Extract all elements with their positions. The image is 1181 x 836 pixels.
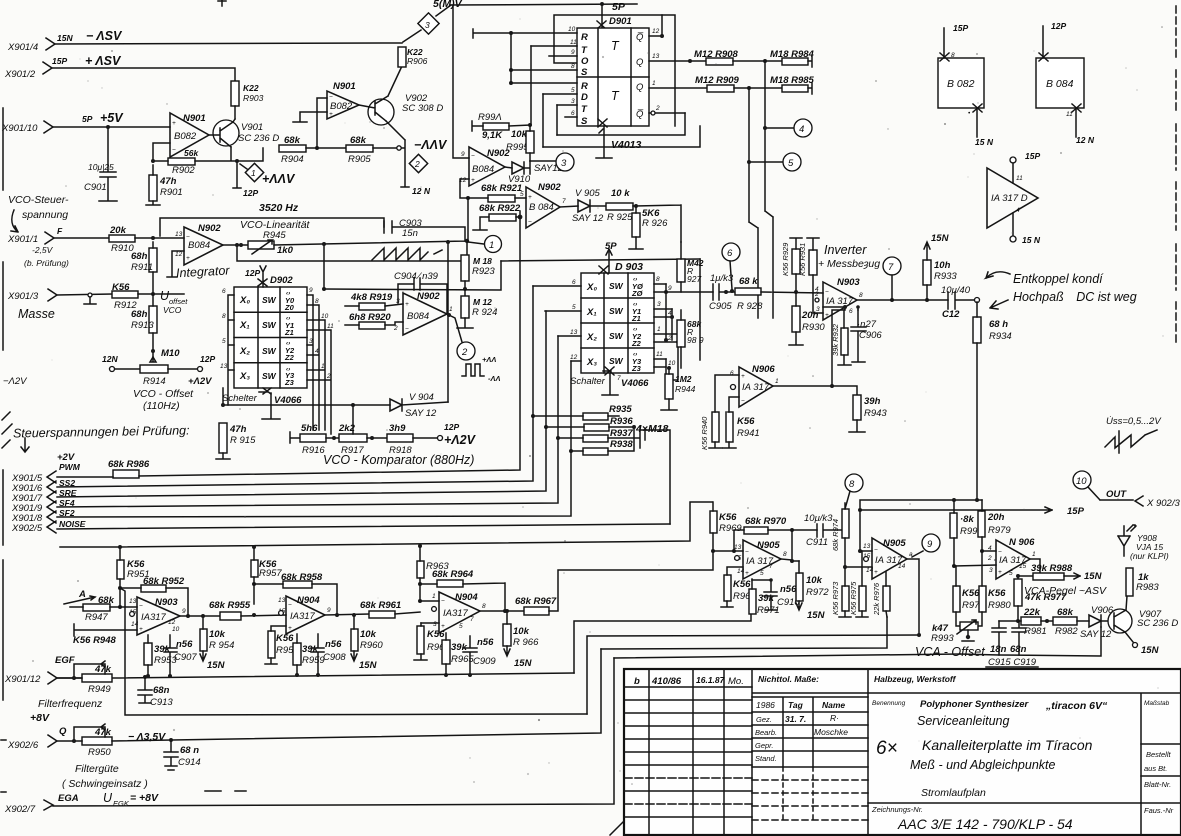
svg-text:C909: C909 [473,656,496,667]
svg-text:Benennung: Benennung [872,700,906,707]
resistor R969 [710,502,742,553]
svg-text:13: 13 [652,53,660,60]
svg-text:R972: R972 [806,587,829,598]
resistor R911 [131,242,157,294]
svg-text:5: 5 [1009,570,1013,577]
svg-text:3: 3 [657,301,661,308]
svg-text:10k: 10k [360,629,377,640]
svg-text:2: 2 [326,373,331,380]
svg-text:−: − [329,94,333,101]
svg-text:15P: 15P [1067,506,1085,517]
svg-text:20h: 20h [801,310,819,321]
svg-text:R969: R969 [719,523,742,534]
junction R910/R911 [151,236,155,240]
svg-text:15N: 15N [359,660,378,671]
junction 5P [597,2,606,29]
svg-text:68k R974: 68k R974 [831,519,840,551]
svg-text:X901/3: X901/3 [7,291,39,302]
svg-text:1: 1 [1032,551,1036,558]
resistor R931 [798,238,819,293]
svg-text:R959: R959 [302,655,325,666]
ground D901 [596,126,612,158]
svg-text:K56: K56 [719,512,737,523]
svg-text:Z3: Z3 [284,378,295,387]
svg-text:AAC 3/E 142 - 790/KLP - 54: AAC 3/E 142 - 790/KLP - 54 [897,816,1073,832]
svg-text:+Λ2V: +Λ2V [188,376,212,387]
label Filterfrequenz +8V [30,698,103,724]
resistor R938 [569,425,636,455]
wire Q1 branch down [747,86,783,318]
svg-text:39k: 39k [154,644,171,655]
svg-text:1: 1 [251,168,256,178]
resistor R934 [973,302,1012,500]
svg-text:12P: 12P [245,268,260,278]
junction sawtooth wire [235,243,239,247]
rail filter common [57,673,574,678]
svg-text:+: + [741,373,745,380]
resistor R926 [629,206,668,249]
svg-text:R904: R904 [281,154,304,165]
svg-text:V 905: V 905 [575,188,601,199]
svg-text:SW: SW [262,295,277,305]
svg-text:1: 1 [489,240,494,251]
ground D902 [262,393,280,419]
svg-text:47k: 47k [94,664,112,675]
svg-text:R906: R906 [407,56,428,66]
svg-text:R913: R913 [131,320,154,331]
resistor R981 [999,607,1053,637]
svg-text:9: 9 [327,607,331,614]
resistor R985 [770,75,815,94]
svg-text:IA 317: IA 317 [742,382,770,393]
bus wire PWM [57,217,520,477]
svg-text:N904: N904 [455,592,478,603]
svg-text:Filtergüte: Filtergüte [75,763,119,775]
wire X902/6 row [112,649,601,741]
svg-text:N902: N902 [417,291,440,302]
svg-text:+Λ2V: +Λ2V [444,433,477,447]
svg-text:R960: R960 [360,640,383,651]
label VCO-Linearitaet [240,219,311,241]
svg-text:12: 12 [570,354,578,361]
svg-text:8: 8 [783,551,787,558]
op-amp N902 d [393,291,453,335]
svg-text:VCO - Offset: VCO - Offset [133,388,194,400]
rail R951 R957 R963 tops [60,502,712,547]
label +2V PWM [57,452,81,472]
svg-text:68 n: 68 n [180,745,199,756]
svg-text:R903: R903 [243,93,264,103]
svg-text:8: 8 [482,603,486,610]
svg-text:2: 2 [414,159,420,169]
node circle 6 [722,243,740,293]
svg-text:5: 5 [572,304,576,311]
svg-text:10k: 10k [209,629,226,640]
right sheet border dashes [1175,6,1177,345]
junction X rail [221,403,225,407]
resistor R973 [831,565,851,617]
svg-text:1: 1 [657,326,661,333]
svg-text:1: 1 [321,363,325,370]
svg-text:13: 13 [278,597,286,604]
svg-text:Schalter: Schalter [570,376,606,387]
svg-text:8: 8 [859,292,863,299]
svg-text:C12: C12 [942,309,960,320]
node circle 2 [457,342,475,360]
op-amp N904 filter2 [278,595,331,634]
svg-text:R911: R911 [131,262,153,273]
svg-text:3: 3 [571,98,575,105]
wire stage2 output [325,614,369,615]
switch IC D902 [234,266,307,388]
D901 Q2 stub [649,105,685,115]
bus wire SF2 [57,361,571,517]
svg-text:R923: R923 [472,266,495,277]
svg-text:SC 308 D: SC 308 D [402,103,443,114]
svg-text:11: 11 [327,323,334,330]
photodiode Y908 [1118,525,1169,561]
svg-text:C905: C905 [709,301,732,312]
net 3520Hz feedback wire [160,218,384,236]
capacitor C905 [709,273,735,312]
svg-text:Name: Name [822,700,845,710]
resistor R933 [923,233,957,300]
svg-text:12P: 12P [200,354,215,364]
svg-text:N906: N906 [752,364,775,375]
svg-text:12P: 12P [1051,21,1066,31]
op-amp N905 b [863,538,913,579]
handwritten Entkoppelkondi [986,272,1137,309]
D901 pin stubs left [473,26,577,147]
svg-text:IA 317 D: IA 317 D [991,193,1028,204]
resistor R935 [531,404,632,420]
svg-text:OUT: OUT [1106,489,1127,500]
svg-text:1986: 1986 [756,700,775,710]
svg-text:7: 7 [470,616,474,623]
svg-text:·n27: ·n27 [857,319,877,330]
svg-text:2: 2 [461,347,468,358]
D903 right pin stubs [654,276,678,367]
svg-text:3: 3 [425,20,430,30]
resistor R976 [872,572,890,617]
svg-text:VCO: VCO [163,305,182,315]
svg-text:D: D [581,92,588,103]
bus wire SS2 [57,286,533,487]
node circle 10 and OUT [1073,471,1180,509]
svg-text:15P: 15P [953,23,968,33]
resistor R915 [216,423,256,459]
svg-text:-ΛΛ: -ΛΛ [488,374,501,383]
svg-text:R945: R945 [263,230,286,241]
capacitor C913 [138,675,173,708]
node circle 1 [468,236,502,253]
ground N901b + input [293,112,327,122]
resistor R953 [144,635,177,678]
svg-text:B 082: B 082 [947,78,975,90]
svg-text:C911: C911 [806,537,828,548]
svg-text:Q: Q [59,726,67,737]
svg-text:D902: D902 [270,275,293,286]
svg-text:47h: 47h [159,176,177,187]
label SAY12 node3 [530,161,566,174]
svg-text:6: 6 [222,288,226,295]
svg-text:3: 3 [989,567,993,574]
svg-text:Moschke: Moschke [814,727,848,737]
transistor V902 [359,66,443,125]
svg-text:K56 R940: K56 R940 [700,416,709,450]
svg-text:aus Bt.: aus Bt. [1144,764,1167,773]
wire 5P top rail [451,4,637,5]
svg-text:13: 13 [863,543,871,550]
svg-text:9: 9 [309,287,313,294]
op-amp N901 [170,113,209,157]
wire V901 emitter node [195,147,263,187]
svg-text:−: − [874,547,878,554]
svg-text:6: 6 [730,370,734,377]
resistor R949 [57,661,112,695]
svg-text:12P: 12P [444,422,459,432]
capacitor C12 [941,285,980,320]
svg-text:1M2: 1M2 [675,374,692,384]
svg-text:+ΛΛV: +ΛΛV [262,172,296,186]
svg-text:X 902/3: X 902/3 [1146,498,1180,509]
svg-text:−Λ2V: −Λ2V [3,376,28,387]
svg-text:+: + [139,626,143,633]
svg-text:SW: SW [262,371,277,381]
svg-text:Hochpaß DC ist weg: Hochpaß DC ist weg [1013,290,1137,304]
svg-text:C914: C914 [178,757,201,768]
svg-text:NOISE: NOISE [59,519,86,529]
svg-text:= +8V: = +8V [130,792,159,804]
label R993 VCA-Offset [915,623,985,659]
svg-text:15N: 15N [1084,571,1103,582]
resistor R966 [503,611,539,669]
svg-text:8: 8 [656,276,660,283]
svg-text:12: 12 [175,251,183,258]
wire N905a output [781,530,799,563]
svg-text:R957: R957 [259,568,282,579]
svg-text:68n: 68n [153,685,170,696]
title mini table [752,697,868,820]
op-amp IA317D power symbol [987,151,1041,245]
svg-text:S: S [581,67,588,78]
svg-text:4: 4 [315,348,319,355]
resistor R959 [293,634,325,677]
svg-text:(nur KLPI): (nur KLPI) [1130,551,1169,561]
D901 Q13 output wire [649,53,706,63]
svg-text:X₀: X₀ [239,295,250,306]
svg-text:−: − [172,147,176,154]
potentiometer R993 [957,620,978,641]
svg-text:Z2: Z2 [631,339,642,348]
wire return path C [601,617,887,649]
wire R936/38 common to NOISE riser [640,430,670,524]
resistor R909 [695,75,782,92]
svg-text:1: 1 [449,306,453,313]
IC block B084 [1036,21,1095,145]
resistor R928 [735,276,823,312]
svg-text:14: 14 [866,567,874,574]
label Uss waveform [1105,416,1162,453]
svg-text:+: + [471,177,475,184]
svg-text:U: U [103,791,113,805]
wire return path A [574,614,751,673]
svg-text:5: 5 [222,338,226,345]
5P supply D903 [599,241,617,274]
svg-text:+: + [186,255,190,262]
svg-text:4: 4 [1016,207,1020,214]
node circle 3 [556,153,574,171]
wire N903 output [857,299,948,301]
svg-text:SC 236 D: SC 236 D [1137,618,1178,629]
svg-text:+: + [745,570,749,577]
svg-text:1: 1 [652,80,656,87]
wire feedback loop x125 [120,588,587,715]
svg-text:(110Hz): (110Hz) [143,400,180,412]
svg-text:Filterfrequenz: Filterfrequenz [38,698,103,710]
svg-text:IA 317: IA 317 [826,296,854,307]
svg-text:n56: n56 [176,639,193,650]
svg-text:R979: R979 [988,525,1011,536]
connector X901/5 [11,471,56,484]
svg-text:V 904: V 904 [409,392,434,403]
svg-text:31. 7.: 31. 7. [785,714,806,724]
svg-text:12: 12 [168,619,176,626]
svg-text:N903: N903 [155,597,178,608]
svg-text:B084: B084 [407,311,429,322]
svg-text:18n: 18n [990,644,1007,655]
wire N903 plus feedback [813,293,858,386]
svg-text:11: 11 [1016,175,1023,182]
capacitor C910 [752,578,800,610]
svg-text:+: + [825,312,829,319]
diode V905 [560,188,606,224]
wire N906a output [773,386,857,395]
wire D903 out to N903 [666,291,713,293]
svg-text:R99Λ: R99Λ [478,112,502,123]
svg-text:1: 1 [432,593,436,600]
svg-text:10μ|25: 10μ|25 [88,162,114,172]
resistor R986 [108,459,150,478]
svg-text:68k R967: 68k R967 [515,596,557,607]
svg-text:SW: SW [262,346,277,356]
svg-text:Bestellt: Bestellt [1146,750,1172,759]
svg-text:+: + [874,569,878,576]
svg-text:8: 8 [571,63,575,70]
svg-text:R 928: R 928 [737,301,763,312]
svg-text:Maßstab: Maßstab [1144,700,1170,707]
svg-text:2: 2 [814,291,819,298]
svg-text:U̇ss=0,5...2V: U̇ss=0,5...2V [1106,416,1162,427]
svg-text:C913: C913 [150,697,173,708]
wire R934 to N905b [858,498,982,553]
connector X901/2 [4,56,67,80]
svg-text:−: − [825,289,829,296]
svg-text:14: 14 [737,568,745,575]
svg-text:ZØ: ZØ [631,289,644,298]
svg-text:8: 8 [222,313,226,320]
label VCO-Offset (110Hz) [133,388,194,412]
svg-text:R941: R941 [737,428,760,439]
svg-text:1k0: 1k0 [277,245,294,256]
svg-text:K56: K56 [737,416,755,427]
svg-text:Q: Q [636,82,644,93]
svg-text:Meß - und Abgleichpunkte: Meß - und Abgleichpunkte [910,758,1056,772]
svg-text:5h6: 5h6 [301,423,318,434]
svg-text:−: − [745,549,749,556]
svg-text:13: 13 [570,329,578,336]
svg-text:X901/4: X901/4 [7,42,38,53]
svg-text:13: 13 [734,544,742,551]
svg-text:IA317: IA317 [290,611,316,622]
svg-text:VCA - Offset: VCA - Offset [915,645,985,659]
svg-text:6: 6 [572,279,576,286]
svg-text:68k R922: 68k R922 [479,203,521,214]
svg-text:B084: B084 [472,164,494,175]
switch IC D903 [581,261,654,373]
svg-text:B082: B082 [174,131,197,142]
svg-text:13: 13 [220,363,228,370]
svg-text:15n: 15n [402,228,418,239]
svg-text:+: + [329,111,333,118]
svg-text:Q̅: Q̅ [636,109,644,120]
svg-text:15N: 15N [931,233,950,244]
handwritten Inverter +Messbezug [818,243,880,270]
svg-text:39h: 39h [864,396,881,407]
svg-text:5: 5 [520,191,524,198]
svg-text:K56: K56 [962,588,980,599]
svg-text:R949: R949 [88,684,111,695]
note (-2,5V b.Pruefung) [24,245,69,268]
flipflop D901 outer box [554,15,675,126]
svg-text:R: R [581,81,588,92]
resistor R912 [112,282,184,311]
wire D902 X-input rail to comparator [223,388,390,405]
svg-text:K56 R975: K56 R975 [849,581,858,615]
svg-text:68 k: 68 k [739,276,758,287]
svg-text:R901: R901 [160,187,183,198]
resistor R919 [345,292,403,310]
svg-text:9: 9 [927,539,933,550]
svg-text:−: − [528,219,532,226]
diode V910 [505,161,531,185]
svg-text:16.1.87: 16.1.87 [696,675,726,685]
terminal stub on Masse wire [84,293,96,304]
svg-text:K56: K56 [427,629,445,640]
svg-text:10k: 10k [511,129,528,140]
D902 left pin stubs [220,288,234,405]
connector X901/9 [11,498,75,514]
resistor R964 [420,569,505,611]
svg-text:C908: C908 [323,652,346,663]
resistor R972 [796,561,829,621]
svg-text:68n: 68n [1010,644,1027,655]
svg-text:N905: N905 [883,538,906,549]
svg-text:K22: K22 [243,83,259,93]
svg-text:b: b [634,676,640,687]
svg-text:4: 4 [799,124,804,135]
svg-text:927: 927 [687,274,701,284]
connector X901/12 [4,672,57,685]
svg-text:R933: R933 [934,271,957,282]
right column [1141,700,1181,815]
diamond node 2 [409,154,427,172]
wire N902b + input [460,179,469,198]
svg-text:10k: 10k [513,626,530,637]
svg-text:68k R986: 68k R986 [108,459,150,470]
svg-text:R944: R944 [675,384,696,394]
svg-text:10: 10 [668,360,676,367]
